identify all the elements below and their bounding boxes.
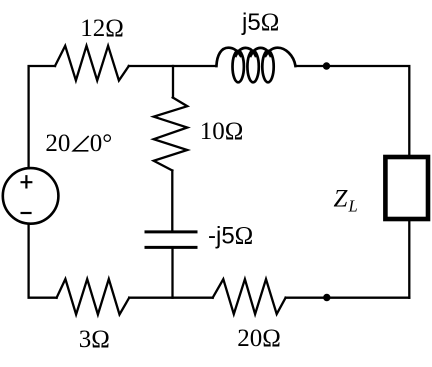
wire middle branch top <box>172 66 174 98</box>
minus sign of source <box>21 212 32 214</box>
wire top middle <box>129 65 217 67</box>
node dot bottom <box>323 294 330 301</box>
svg-text:j5Ω: j5Ω <box>241 9 279 36</box>
node dot top <box>323 62 330 69</box>
wire middle branch bottom <box>171 249 173 298</box>
resistor 20ohm <box>213 279 286 314</box>
voltage source circle <box>3 168 59 224</box>
svg-text:20: 20 <box>45 130 70 157</box>
capacitor -j5ohm bottom plate <box>145 246 198 249</box>
inductor j5ohm loop2 <box>247 51 258 82</box>
resistor 10ohm <box>154 98 188 171</box>
resistor 12ohm <box>55 46 129 81</box>
svg-text:20Ω: 20Ω <box>237 325 281 352</box>
resistor 3ohm <box>57 279 130 315</box>
wire top-left corner <box>29 66 55 168</box>
svg-text:10Ω: 10Ω <box>200 118 244 145</box>
capacitor -j5ohm top plate <box>145 230 198 233</box>
svg-text:3Ω: 3Ω <box>79 326 110 353</box>
wire right bottom <box>408 219 410 298</box>
angle symbol <box>73 136 88 151</box>
wire middle mid <box>171 171 173 231</box>
wire bottom right <box>286 297 410 299</box>
wire top-right corner <box>296 66 410 157</box>
svg-text:-j5Ω: -j5Ω <box>208 223 253 250</box>
inductor j5ohm top arcs <box>216 48 295 66</box>
svg-text:Z: Z <box>334 186 349 213</box>
wire left bottom <box>29 224 57 298</box>
inductor j5ohm loop3 <box>262 51 273 82</box>
svg-text:L: L <box>348 196 358 215</box>
plus sign of source <box>21 175 33 188</box>
inductor j5ohm loop1 <box>233 51 244 82</box>
svg-text:12Ω: 12Ω <box>80 15 124 42</box>
wire bottom middle <box>129 297 213 299</box>
svg-text:0°: 0° <box>90 130 113 157</box>
load ZL box <box>385 157 428 219</box>
